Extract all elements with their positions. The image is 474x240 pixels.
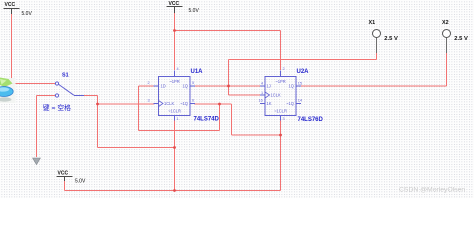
svg-text:2: 2 bbox=[148, 81, 150, 85]
svg-text:1Q: 1Q bbox=[183, 83, 188, 88]
svg-text:1: 1 bbox=[261, 91, 263, 95]
svg-text:3: 3 bbox=[283, 117, 285, 121]
svg-text:3: 3 bbox=[148, 99, 150, 103]
svg-text:5.0V: 5.0V bbox=[22, 11, 33, 17]
svg-text:~1CLR: ~1CLR bbox=[168, 108, 181, 113]
svg-text:U2A: U2A bbox=[297, 69, 310, 75]
svg-text:4: 4 bbox=[177, 67, 179, 71]
svg-text:S1: S1 bbox=[62, 73, 69, 79]
svg-text:键 = 空格: 键 = 空格 bbox=[43, 103, 71, 112]
svg-text:6: 6 bbox=[192, 99, 194, 103]
svg-text:X1: X1 bbox=[369, 20, 376, 26]
svg-text:15: 15 bbox=[298, 82, 302, 86]
svg-text:74LS74D: 74LS74D bbox=[194, 117, 220, 123]
svg-text:1: 1 bbox=[177, 117, 179, 121]
svg-text:1D: 1D bbox=[161, 83, 166, 88]
svg-text:U1A: U1A bbox=[191, 69, 204, 75]
svg-text:1Q: 1Q bbox=[289, 83, 294, 88]
svg-text:5.0V: 5.0V bbox=[75, 178, 86, 184]
svg-text:CSDN @MorleyOlsen: CSDN @MorleyOlsen bbox=[399, 186, 465, 193]
svg-text:1CLK: 1CLK bbox=[164, 101, 175, 106]
svg-text:14: 14 bbox=[298, 99, 302, 103]
svg-text:16: 16 bbox=[259, 99, 263, 103]
svg-text:VCC: VCC bbox=[169, 1, 180, 7]
svg-text:1J: 1J bbox=[267, 83, 271, 88]
svg-text:74LS76D: 74LS76D bbox=[298, 117, 324, 123]
svg-text:2: 2 bbox=[283, 67, 285, 71]
svg-text:1CLK: 1CLK bbox=[271, 93, 282, 98]
svg-text:~1CLR: ~1CLR bbox=[274, 108, 287, 113]
svg-text:VCC: VCC bbox=[5, 2, 16, 8]
svg-text:4: 4 bbox=[261, 82, 263, 86]
svg-text:~1PR: ~1PR bbox=[275, 79, 285, 84]
svg-text:X2: X2 bbox=[442, 20, 449, 26]
svg-text:~1PR: ~1PR bbox=[169, 79, 179, 84]
svg-text:2.5 V: 2.5 V bbox=[384, 36, 398, 42]
svg-text:1K: 1K bbox=[267, 101, 272, 106]
svg-text:VCC: VCC bbox=[58, 170, 69, 176]
svg-text:5.0V: 5.0V bbox=[189, 8, 200, 14]
svg-text:5: 5 bbox=[192, 81, 194, 85]
svg-text:~1Q: ~1Q bbox=[180, 101, 188, 106]
svg-text:2.5 V: 2.5 V bbox=[454, 36, 468, 42]
svg-text:~1Q: ~1Q bbox=[286, 101, 294, 106]
